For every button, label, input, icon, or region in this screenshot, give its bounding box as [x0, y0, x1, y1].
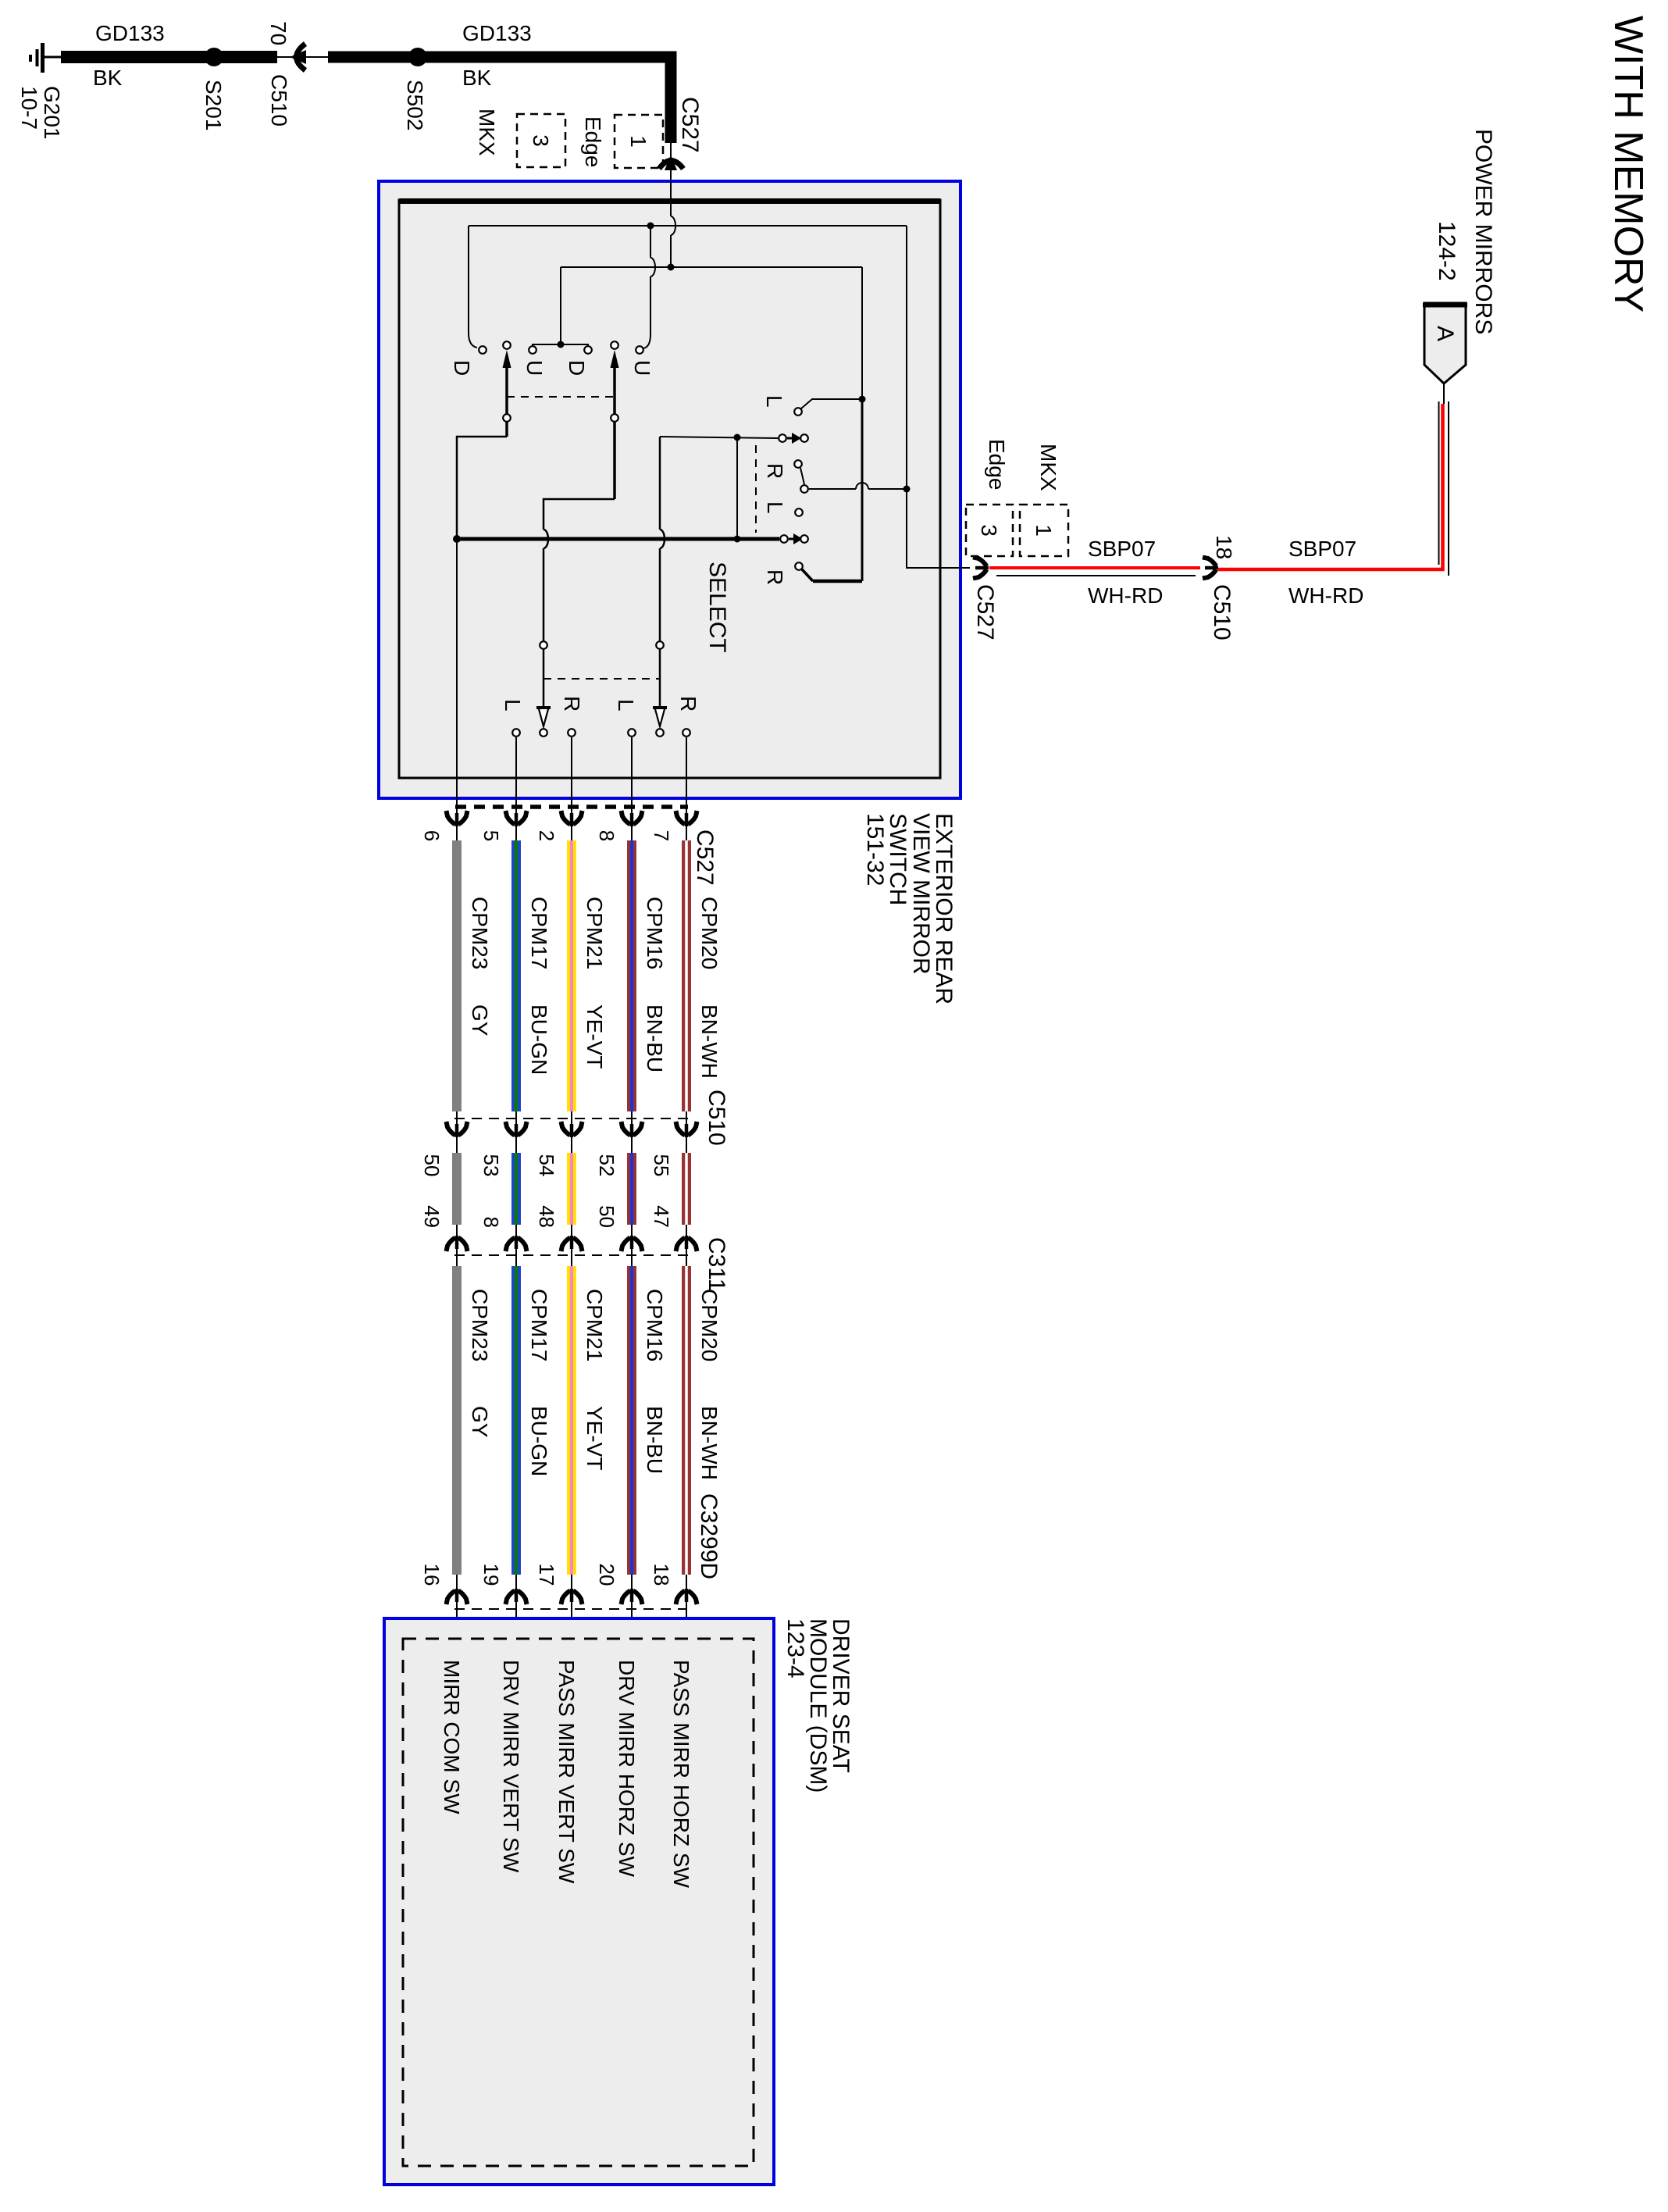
svg-text:70: 70: [266, 21, 290, 45]
striped wire outlines vertical: [1439, 401, 1449, 576]
right vertical from select feed line down to lower pass pole: [660, 437, 665, 709]
wire name labels row 1: [468, 897, 722, 969]
svg-text:6: 6: [420, 830, 444, 841]
wire CPM23 GY segment 2: [452, 1153, 462, 1225]
junction dot bus left: [453, 535, 461, 543]
select R contact bottom: [795, 562, 813, 581]
select L contact bottom (open): [795, 508, 803, 516]
circle on pass lower pole: [656, 641, 664, 649]
svg-text:L: L: [762, 395, 786, 408]
svg-text:BU-GN: BU-GN: [527, 1406, 551, 1476]
svg-text:GY: GY: [468, 1004, 492, 1036]
wire CPM21 YE-VT segment 3: [567, 1266, 576, 1575]
svg-text:CPM23: CPM23: [468, 1289, 492, 1361]
svg-text:U: U: [630, 360, 654, 376]
harness wire 7 base line: [686, 798, 687, 1639]
svg-text:SBP07: SBP07: [1288, 537, 1356, 561]
wire L2 left drop to bridge: [560, 267, 561, 344]
node L1 feed line: [469, 225, 907, 227]
svg-text:10-7: 10-7: [17, 86, 41, 130]
label DRIVER SEAT MODULE (DSM) 123-4: [782, 1618, 854, 1793]
svg-text:50: 50: [595, 1205, 618, 1228]
harness wire 6 base line: [456, 798, 458, 1639]
C311 plug arrows: [447, 1236, 697, 1251]
svg-text:CPM17: CPM17: [527, 1289, 551, 1361]
bottom contact L passenger: [628, 729, 636, 737]
wire color labels row 2: [468, 1406, 722, 1480]
wire CPM16 BN-BU segment 2: [627, 1153, 636, 1225]
svg-text:C510: C510: [267, 74, 291, 127]
svg-text:MIRR COM SW: MIRR COM SW: [440, 1660, 464, 1814]
svg-text:BN-WH: BN-WH: [697, 1406, 722, 1480]
bottom contact R passenger: [683, 729, 690, 737]
connector C311 dashed line: [454, 1254, 693, 1256]
svg-text:8: 8: [479, 1217, 503, 1228]
svg-text:7: 7: [650, 830, 673, 841]
C510 pin labels 50 53 54 52 55: [420, 1154, 673, 1177]
ground G201: [30, 43, 62, 73]
harness wire 8 base line: [631, 798, 633, 1639]
svg-text:YE-VT: YE-VT: [583, 1004, 607, 1069]
contact D passenger circle: [584, 346, 592, 354]
splice S502: [408, 48, 427, 66]
svg-text:D: D: [450, 360, 474, 376]
wire CPM17 BU-GN segment 1: [511, 840, 521, 1111]
bottom contact L driver: [512, 729, 520, 737]
svg-text:5: 5: [479, 830, 503, 841]
svg-text:Edge: Edge: [581, 116, 605, 167]
svg-text:DRV MIRR HORZ SW: DRV MIRR HORZ SW: [615, 1660, 639, 1877]
pin box 3 (Edge) right: [966, 505, 1013, 556]
wire CPM20 BN-WH segment 3: [682, 1266, 691, 1575]
svg-text:R: R: [763, 569, 787, 585]
junction dot select feed: [734, 434, 741, 441]
svg-text:WH-RD: WH-RD: [1088, 583, 1163, 608]
svg-text:L: L: [614, 699, 638, 712]
junction dot L2 top select: [859, 396, 866, 403]
svg-text:A: A: [1432, 326, 1458, 341]
C3299D pin labels 16 19 17 20 18: [420, 1564, 673, 1586]
DSM inner dashed box: [403, 1639, 754, 2166]
select common middle contact: [800, 483, 907, 493]
svg-text:C3299D: C3299D: [696, 1493, 722, 1579]
svg-text:MKX: MKX: [475, 109, 499, 156]
svg-text:POWER MIRRORS: POWER MIRRORS: [1470, 129, 1496, 334]
svg-text:PASS MIRR VERT SW: PASS MIRR VERT SW: [554, 1660, 579, 1884]
junction dot middle to L1 vertical: [903, 486, 911, 493]
connector C527 plug arrow on SBP07: [973, 558, 989, 579]
pin box 1 (Edge) top: [615, 115, 663, 168]
node L2 feed line: [561, 266, 862, 268]
svg-text:C527: C527: [972, 584, 998, 640]
wire CPM17 BU-GN segment 2: [511, 1153, 521, 1225]
svg-text:20: 20: [595, 1564, 618, 1586]
driver seat module box: [384, 1618, 774, 2185]
harness wire 5 base line: [515, 798, 517, 1639]
svg-text:17: 17: [535, 1564, 558, 1586]
L1 vertical and exit wire to C527: [907, 226, 970, 568]
harness wire 2 base line: [571, 798, 572, 1639]
connector C3299D dashed line: [454, 1608, 686, 1610]
lower right pole hollow down arrow: [655, 708, 665, 726]
svg-text:1: 1: [626, 135, 650, 148]
wire CPM21 YE-VT segment 2: [567, 1153, 576, 1225]
svg-text:1: 1: [1032, 524, 1056, 537]
wire CPM16 BN-BU segment 3: [627, 1266, 636, 1575]
svg-text:S502: S502: [403, 80, 427, 130]
svg-text:G201: G201: [40, 86, 64, 140]
wire GD133 BK left thick segment: [61, 51, 277, 63]
exit wires to box bottom: [457, 539, 686, 798]
svg-text:MKX: MKX: [1036, 444, 1060, 491]
svg-text:C311: C311: [704, 1237, 729, 1292]
svg-text:YE-VT: YE-VT: [583, 1406, 607, 1470]
mechanical dashed link upper poles: [507, 396, 615, 398]
svg-text:BK: BK: [462, 66, 492, 90]
connector C510 dashed line: [454, 1118, 693, 1119]
wire CPM23 GY segment 3: [452, 1266, 462, 1575]
svg-text:C527: C527: [692, 829, 718, 886]
wire CPM17 BU-GN segment 3: [511, 1266, 521, 1575]
splice S201: [205, 48, 223, 66]
svg-text:CPM23: CPM23: [468, 897, 492, 969]
select bus thick line: [457, 537, 779, 541]
svg-text:55: 55: [650, 1154, 673, 1177]
wire SBP07 WH-RD segment C510 to power mirrors: [1218, 404, 1443, 569]
svg-text:SELECT: SELECT: [704, 562, 730, 653]
svg-text:151-32: 151-32: [862, 813, 888, 886]
driver vertical pole with up arrow: [457, 341, 511, 539]
svg-text:3: 3: [977, 524, 1001, 537]
svg-text:C527: C527: [677, 97, 703, 153]
svg-text:CPM21: CPM21: [583, 897, 607, 969]
C311 pin labels 49 8 48 50 47: [420, 1205, 673, 1228]
passenger vertical pole with up arrow: [540, 341, 618, 709]
svg-text:BU-GN: BU-GN: [527, 1004, 551, 1075]
svg-text:CPM17: CPM17: [527, 897, 551, 969]
svg-text:124-2: 124-2: [1434, 221, 1459, 281]
svg-text:CPM16: CPM16: [643, 1289, 667, 1361]
pin box 3 (MKX) top: [517, 114, 565, 167]
wire from connector A tip: [1443, 384, 1445, 404]
wire L1 left drop to D contact: [469, 226, 477, 348]
lower mechanism dashed link: [544, 678, 660, 680]
svg-text:CPM20: CPM20: [697, 897, 722, 969]
power mirrors connector A flag: [1423, 303, 1467, 384]
bridge wire U driver to D passenger: [533, 344, 588, 350]
wire name labels row 2: [468, 1289, 722, 1361]
C527 plug arrows: [447, 811, 697, 826]
wire color labels row 1: [468, 1004, 722, 1079]
svg-text:U: U: [522, 360, 547, 376]
junction dot on L1 for passenger U drop: [647, 223, 654, 230]
svg-text:L: L: [763, 501, 787, 514]
svg-text:47: 47: [650, 1205, 673, 1228]
svg-text:C510: C510: [704, 1090, 729, 1146]
svg-text:R: R: [763, 463, 787, 479]
C510 plug arrows: [447, 1122, 697, 1137]
svg-text:GD133: GD133: [95, 21, 165, 45]
switch inner frame: [399, 200, 940, 778]
select top pole contacts and arm: [779, 433, 808, 444]
svg-text:BN-WH: BN-WH: [697, 1004, 722, 1079]
select feed horizontal line: [660, 437, 778, 438]
svg-text:L: L: [501, 699, 525, 712]
lower left pole hollow down arrow: [539, 708, 549, 726]
svg-text:8: 8: [595, 830, 618, 841]
svg-text:GD133: GD133: [462, 21, 532, 45]
junction dot bridge: [558, 341, 565, 348]
pin box 1 (MKX) right: [1020, 505, 1068, 556]
svg-text:WH-RD: WH-RD: [1288, 583, 1363, 608]
wire CPM16 BN-BU segment 1: [627, 840, 636, 1111]
wire CPM20 BN-WH segment 1: [682, 840, 691, 1111]
svg-text:SBP07: SBP07: [1088, 537, 1156, 561]
svg-text:48: 48: [535, 1205, 558, 1228]
svg-text:C510: C510: [1209, 584, 1235, 640]
select R contact top: [794, 460, 804, 484]
inline connector C510 on ground wire: [277, 44, 328, 70]
svg-text:PASS MIRR HORZ SW: PASS MIRR HORZ SW: [669, 1660, 693, 1889]
bottom contact R driver: [568, 729, 576, 737]
svg-text:CPM21: CPM21: [583, 1289, 607, 1361]
svg-text:3: 3: [529, 134, 553, 147]
wire CPM23 GY segment 1: [452, 840, 462, 1111]
svg-text:123-4: 123-4: [782, 1618, 808, 1679]
svg-text:CPM20: CPM20: [697, 1289, 722, 1361]
label EXTERIOR REAR VIEW MIRROR SWITCH 151-32: [862, 813, 957, 1004]
mechanical dashed link select poles: [755, 445, 757, 533]
svg-text:53: 53: [479, 1154, 503, 1177]
wire GD133 BK right thick segment with corner down: [328, 57, 671, 143]
connector C527 ground entry symbol: [659, 143, 683, 181]
svg-text:BN-BU: BN-BU: [643, 1406, 667, 1474]
svg-text:19: 19: [479, 1564, 503, 1586]
svg-text:CPM16: CPM16: [643, 897, 667, 969]
svg-text:WITH MEMORY: WITH MEMORY: [1606, 16, 1651, 312]
L2 vertical down to bottom R contact line: [861, 267, 863, 399]
svg-text:S201: S201: [201, 80, 226, 130]
wire CPM20 BN-WH segment 2: [682, 1153, 691, 1225]
C527 pin labels 6 5 2 8 7: [420, 830, 673, 841]
svg-text:R: R: [560, 696, 584, 712]
svg-text:18: 18: [650, 1564, 673, 1586]
C3299D plug arrows: [447, 1589, 697, 1604]
contact U passenger circle: [636, 346, 643, 354]
svg-text:49: 49: [420, 1205, 444, 1228]
svg-text:Edge: Edge: [985, 439, 1009, 490]
junction dot bus at select feed: [734, 536, 741, 543]
svg-text:R: R: [676, 696, 700, 712]
wire SBP07 WH-RD segment C527 to C510: [989, 566, 1200, 569]
contact U driver circle: [529, 346, 536, 354]
svg-text:16: 16: [420, 1564, 444, 1586]
svg-text:50: 50: [420, 1154, 444, 1177]
junction dot C527 wire on L2: [668, 264, 675, 271]
svg-text:54: 54: [535, 1154, 558, 1177]
wire L1 drop to U passenger with hop over L2: [643, 226, 655, 348]
wire from C527 pin1 into switch with hop over L1: [670, 181, 672, 267]
svg-text:VIEW MIRROR: VIEW MIRROR: [908, 813, 934, 975]
contact D driver circle: [479, 346, 486, 354]
select bottom pole contacts and arm: [780, 533, 808, 544]
connector C527 dashed line: [455, 805, 688, 809]
exterior rear view mirror switch box: [379, 181, 961, 798]
svg-text:2: 2: [535, 830, 558, 841]
vertical bus to select feed: [736, 437, 738, 539]
svg-text:D: D: [565, 360, 589, 376]
wire CPM21 YE-VT segment 1: [567, 840, 576, 1111]
switch inner frame thick top bus: [399, 198, 940, 204]
svg-text:BK: BK: [93, 66, 123, 90]
svg-text:GY: GY: [468, 1406, 492, 1438]
select L contact top: [794, 399, 862, 416]
svg-text:BN-BU: BN-BU: [643, 1004, 667, 1072]
svg-text:DRV MIRR VERT SW: DRV MIRR VERT SW: [499, 1660, 523, 1873]
svg-text:18: 18: [1212, 535, 1236, 559]
svg-text:52: 52: [595, 1154, 618, 1177]
connector C510 plug arrow on SBP07: [1203, 558, 1218, 579]
